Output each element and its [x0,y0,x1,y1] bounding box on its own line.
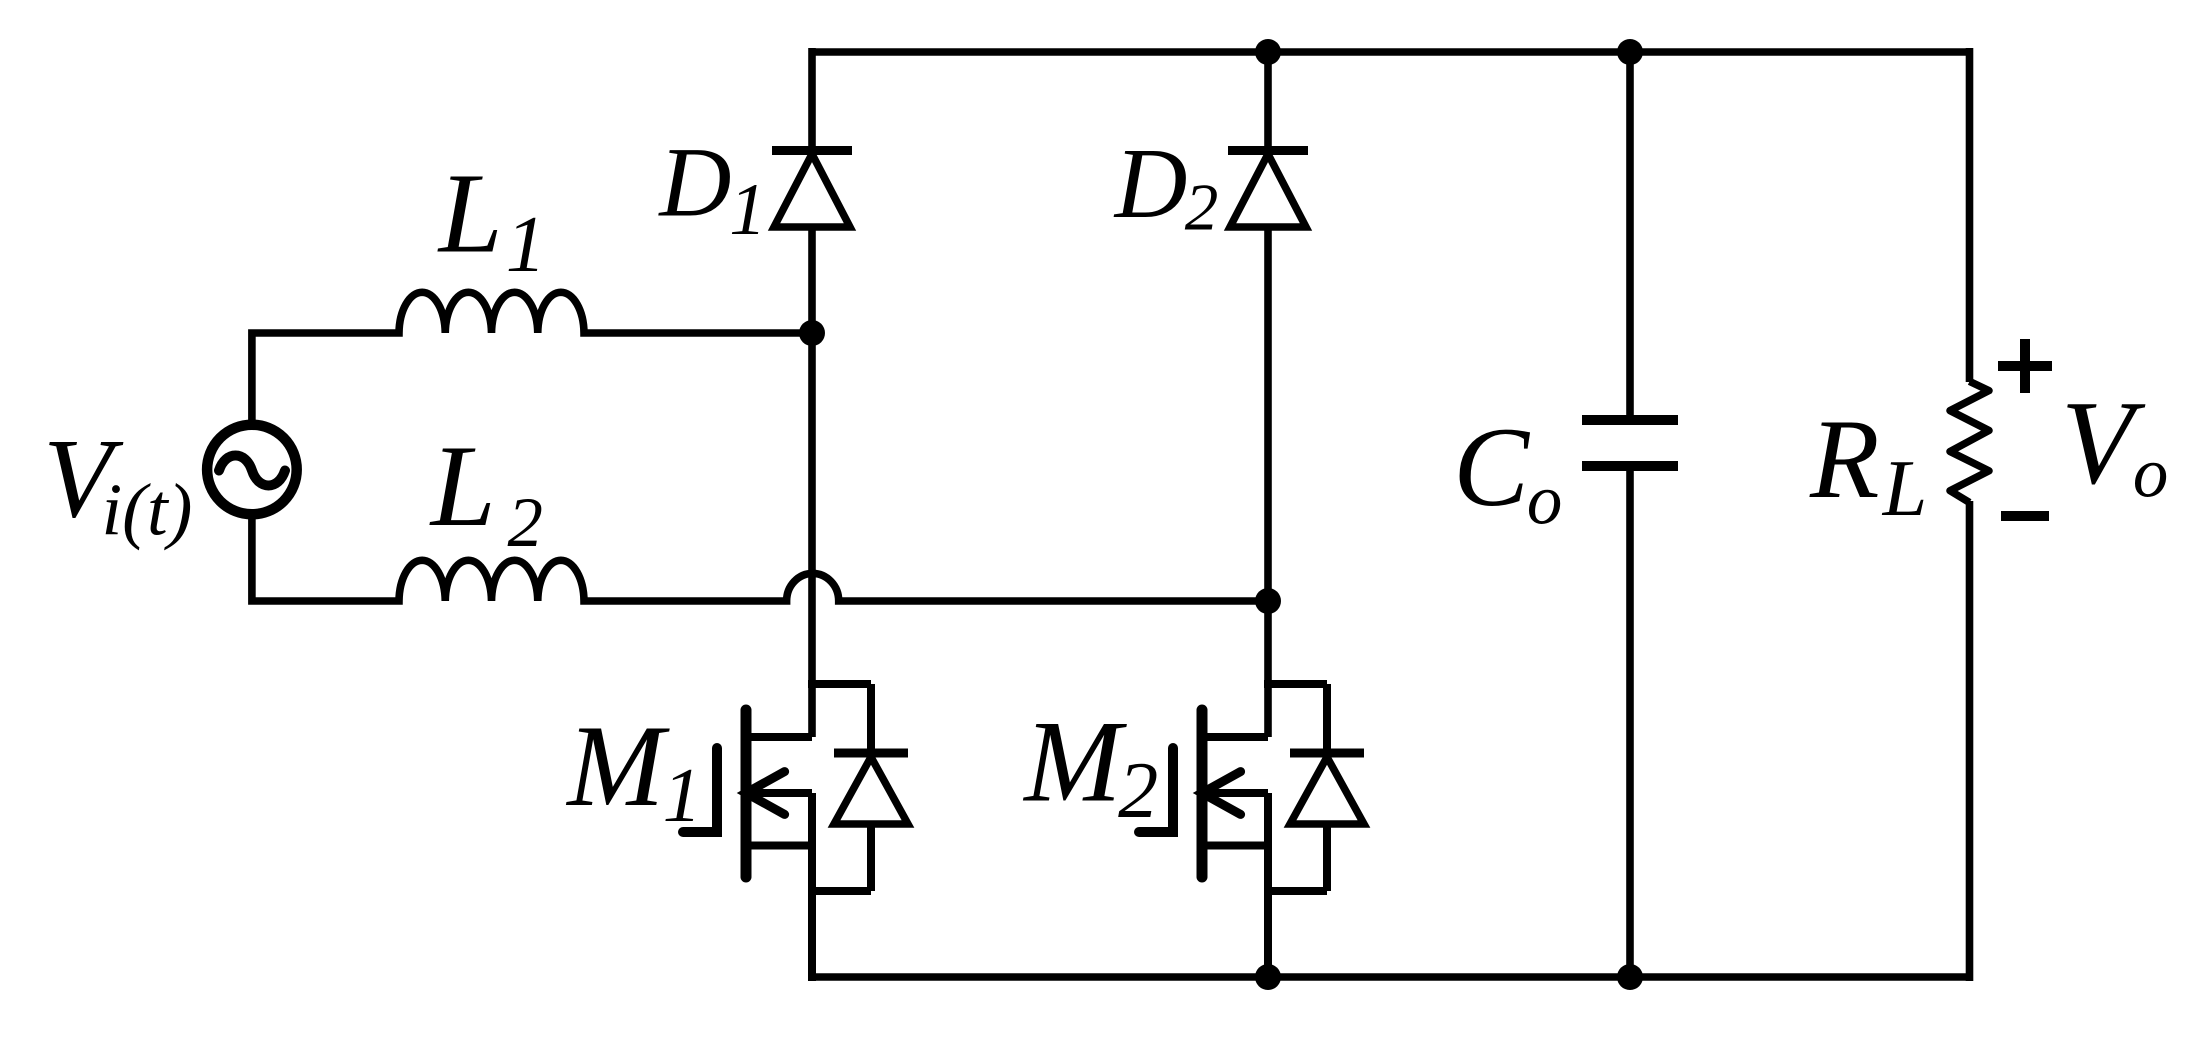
wire Co top lead [1626,48,1634,420]
M2 source branch to body diode [1264,887,1327,895]
wire node B down to M2 drain [1264,601,1272,737]
wire top rail [812,48,1970,56]
svg-text:2: 2 [508,484,543,562]
svg-text:L: L [437,150,503,277]
M2 drain branch to body diode [1264,680,1327,688]
transistor M1 [683,684,908,981]
node A junction dot [799,320,825,346]
svg-text:L: L [429,422,496,551]
svg-text:o: o [1527,461,1562,539]
M1 drain branch to body diode [808,680,871,688]
M2 drain lead [1202,733,1268,741]
wire source top + inductor L1 + wire to node A [252,292,816,425]
M2 channel plate [1197,710,1208,877]
svg-text:D: D [1113,127,1188,239]
diode D2 [1228,151,1308,228]
diode D1 [772,151,852,228]
node top rail D2 junction dot [1255,39,1281,65]
M1 body lead with arrow [746,789,812,797]
svg-text:M: M [565,702,670,831]
M2 source lead [1202,842,1268,850]
wire D2 anode to node B [1264,225,1272,605]
wire RL bottom lead [1966,501,1974,981]
wire Co bottom lead [1626,466,1634,981]
svg-text:o: o [2133,434,2168,512]
M1 channel plate [741,710,752,877]
voltage source Vi(t) [207,425,297,515]
wire node A down to M1 drain [808,333,816,737]
M1 drain lead [746,733,812,741]
svg-text:R: R [1809,396,1880,522]
transistor M2 [1139,684,1364,981]
svg-text:C: C [1453,404,1530,530]
svg-text:i(t): i(t) [102,469,193,551]
plus sign of Vo [1998,339,2052,393]
svg-text:1: 1 [729,168,766,250]
minus sign of Vo [2001,511,2049,521]
resistor RL [1950,381,1989,502]
M1 source lead [746,842,812,850]
M2 gate lead [1139,748,1173,832]
wire D1 anode to node A [808,225,816,337]
svg-text:1: 1 [506,201,546,289]
svg-text:1: 1 [663,752,702,838]
svg-text:D: D [657,126,731,237]
svg-text:2: 2 [1118,747,1158,835]
svg-text:M: M [1022,697,1127,826]
svg-text:L: L [1882,445,1928,533]
M2 body diode [1323,684,1331,753]
M1 gate lead [683,748,717,832]
M2 source down to rail [1264,793,1272,981]
capacitor Co [1582,420,1678,466]
M2 body lead with arrow [1202,789,1268,797]
node B junction dot [1255,588,1281,614]
wire D2 top lead [1264,48,1272,152]
M1 source branch to body diode [808,887,871,895]
wire source bottom + inductor L2 + hop over M1 feed + wire to node B [252,515,1272,601]
wire bottom rail [808,973,1970,981]
M1 source down to rail [808,793,816,981]
wire D1 top lead [808,48,816,152]
M1 body diode [867,684,875,753]
wire RL top lead [1966,48,1974,382]
node bottom rail M2 junction dot [1255,964,1281,990]
svg-text:2: 2 [1185,170,1219,245]
node bottom rail Co junction dot [1617,964,1643,990]
node top rail Co junction dot [1617,39,1643,65]
